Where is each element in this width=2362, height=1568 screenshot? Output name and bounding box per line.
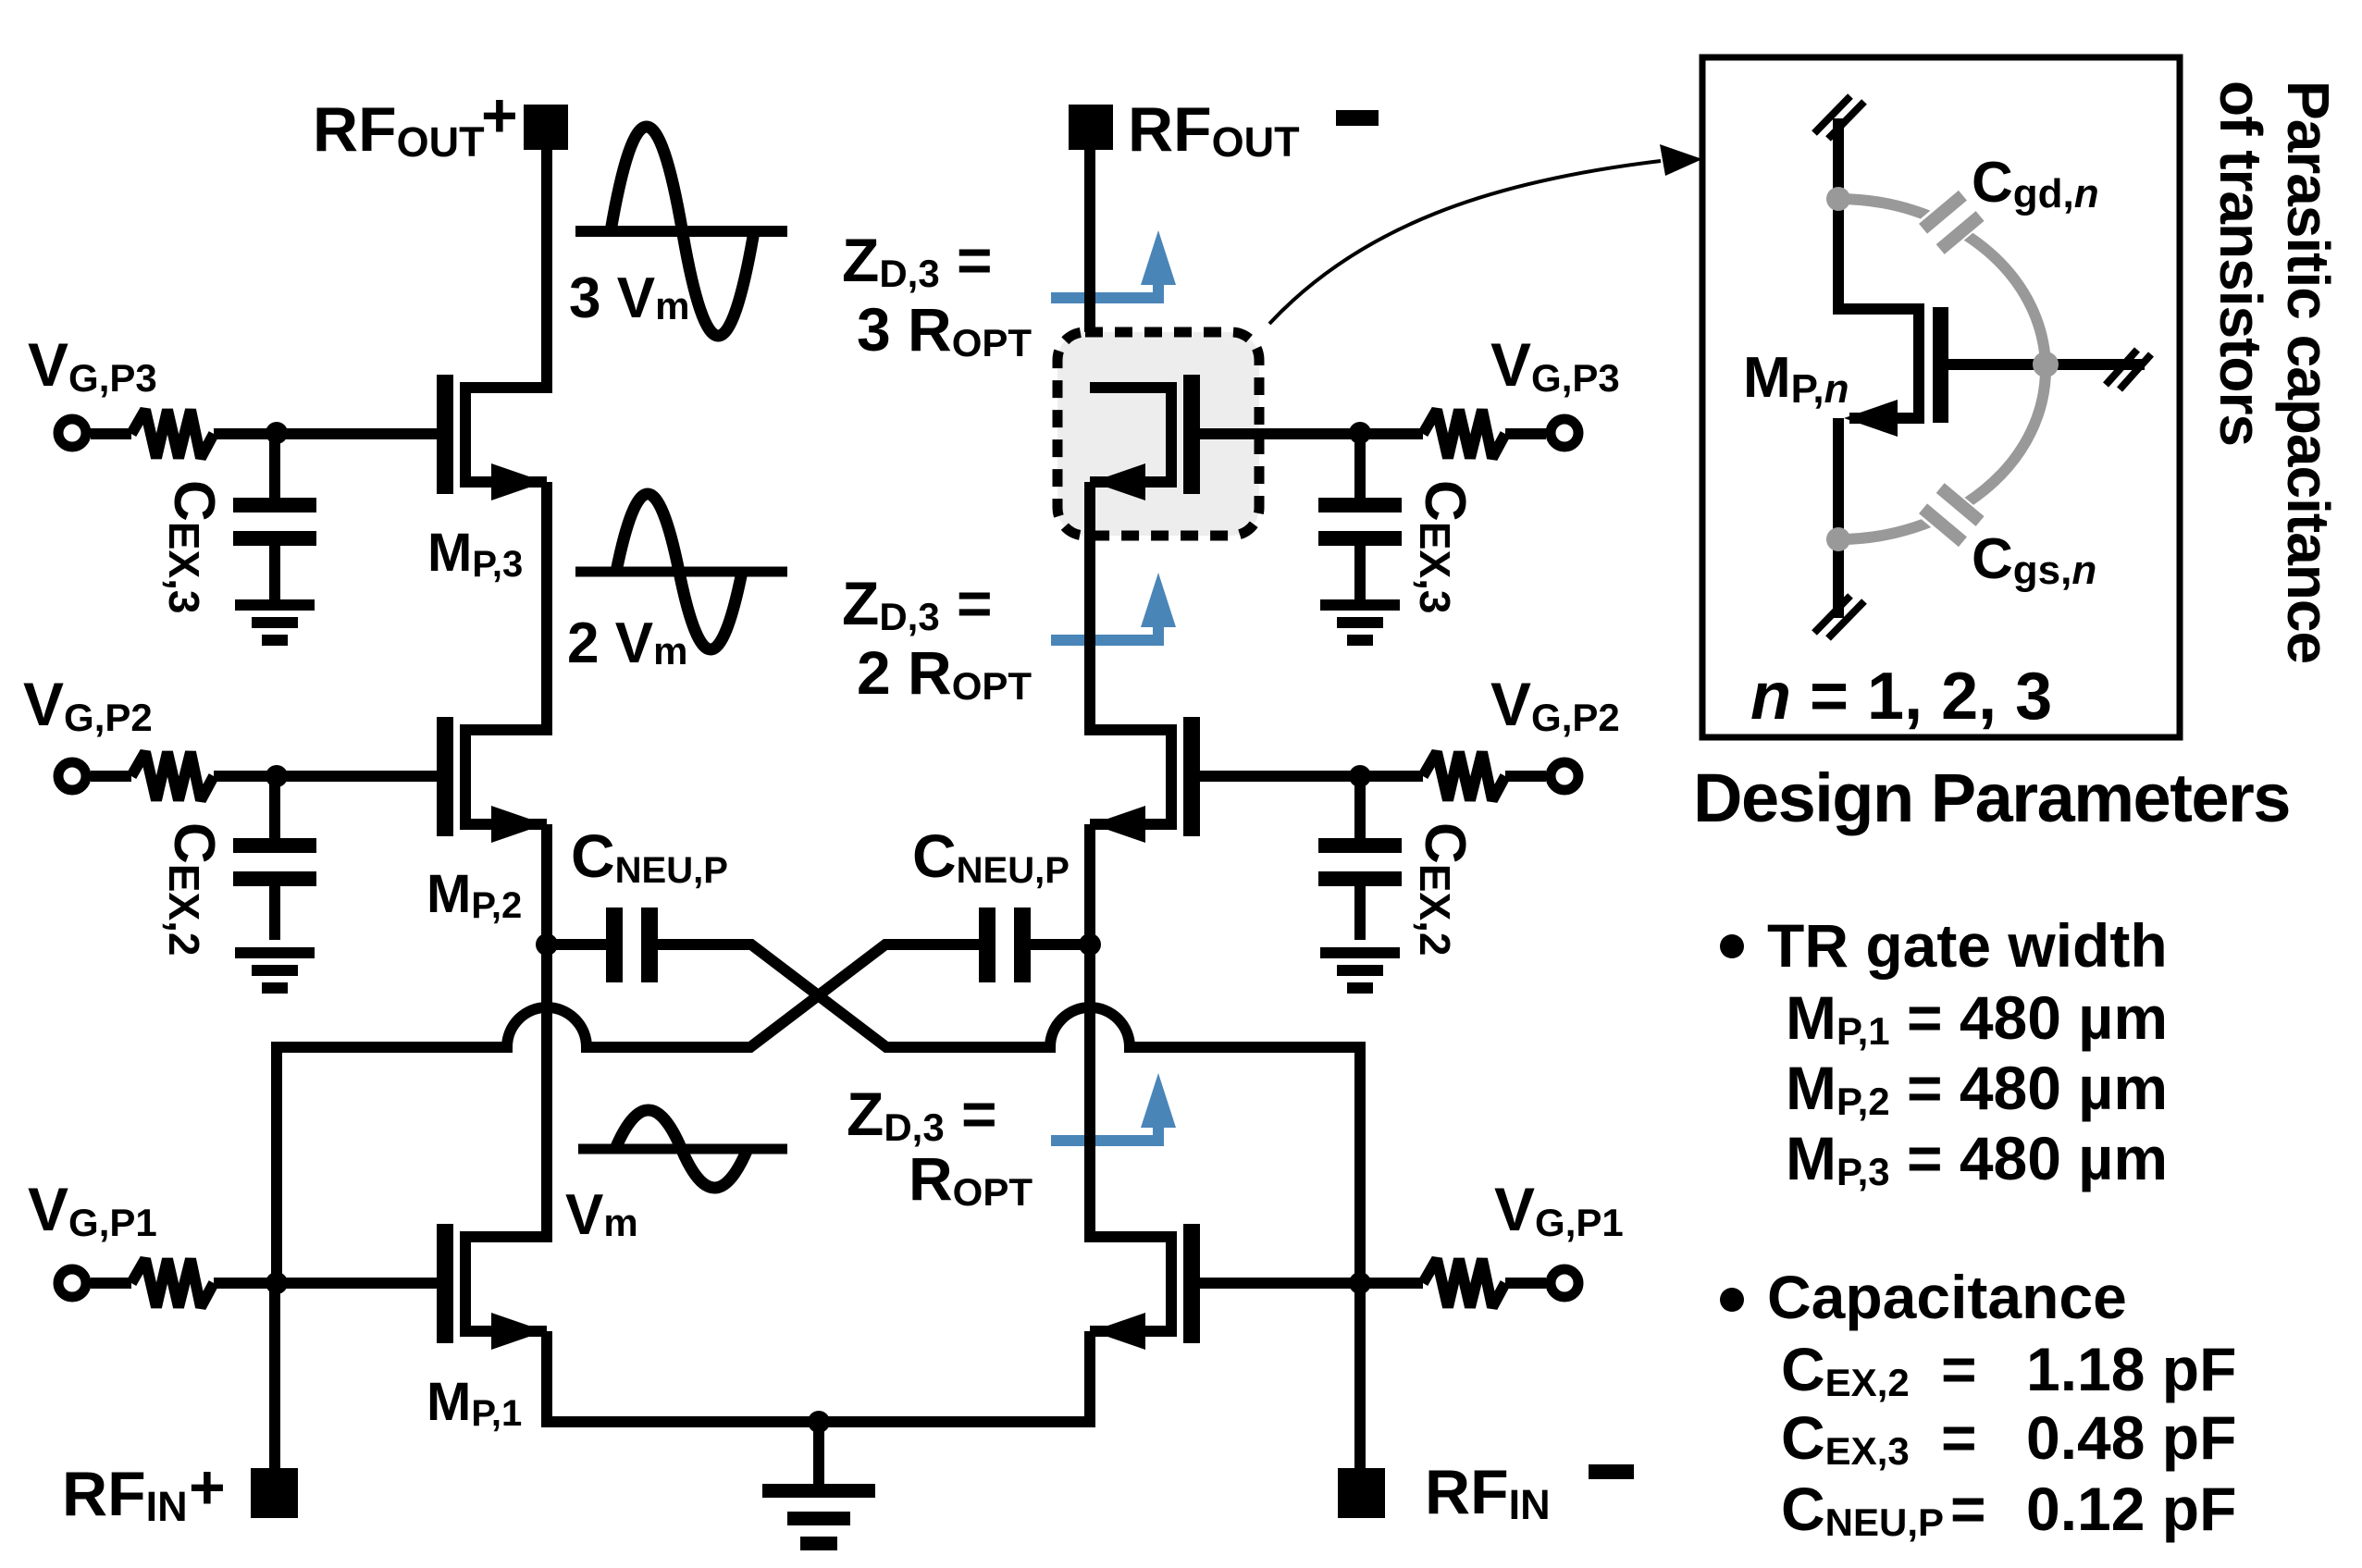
sine wave 3Vm	[575, 127, 787, 336]
terminal VG,P2 left	[58, 762, 86, 790]
svg-text:=: =	[1941, 1335, 1977, 1403]
RF_IN- pad	[1338, 1468, 1385, 1518]
label Parasitic capacitance	[2275, 80, 2342, 663]
bullet TR gate width	[1720, 934, 1744, 958]
ground CEX,3 right	[1320, 599, 1400, 646]
capacitor CEX,2 left	[233, 776, 316, 940]
ground CEX,3 left	[235, 599, 315, 646]
terminal VG,P1 right	[1551, 1269, 1578, 1297]
sine wave Vm	[578, 1110, 787, 1188]
wire gate MP,3 left	[91, 428, 437, 439]
blue arrow ZD3 top	[1051, 230, 1176, 298]
wire cross-couple right node to left gate	[277, 945, 979, 1283]
svg-text:VG,P3: VG,P3	[1490, 330, 1620, 400]
label VG,P2 left	[23, 670, 153, 739]
svg-text:1.18 pF: 1.18 pF	[2026, 1335, 2236, 1403]
label TR gate width	[1767, 911, 2168, 980]
capacitor CEX,2 right	[1318, 776, 1402, 940]
label RF_IN+	[62, 1452, 226, 1530]
pointer arrow to inset	[1269, 144, 1702, 324]
svg-text:VG,P2: VG,P2	[1490, 670, 1620, 739]
svg-text:CEX,3: CEX,3	[1411, 480, 1477, 614]
svg-text:Parasitic capacitance: Parasitic capacitance	[2275, 80, 2342, 663]
svg-text:=: =	[1950, 1475, 1986, 1543]
resistor VG,P1 right	[1423, 1259, 1505, 1307]
label CEX,3 left	[160, 480, 226, 614]
label VG,P3 left	[28, 330, 157, 400]
svg-text:n = 1, 2, 3: n = 1, 2, 3	[1750, 660, 2052, 734]
transistor MP,3 left	[437, 375, 547, 500]
label RF_OUT+	[313, 80, 518, 166]
label MP,3 = 480um	[1786, 1124, 2168, 1193]
svg-text:CNEU,P: CNEU,P	[571, 821, 728, 891]
node VG,P1 right	[1349, 1272, 1371, 1294]
capacitor Cgs,n	[1917, 482, 1985, 549]
svg-text:VG,P2: VG,P2	[23, 670, 153, 739]
svg-text:CEX,3: CEX,3	[160, 480, 226, 614]
label Vm	[565, 1183, 638, 1247]
terminal VG,P1 left	[58, 1269, 86, 1297]
label ZD,3 = (top)	[842, 226, 993, 295]
svg-text:2 ROPT: 2 ROPT	[857, 638, 1032, 708]
label MP,1 = 480um	[1786, 983, 2168, 1053]
capacitor Cgd,n	[1917, 189, 1985, 256]
label 3 Vm	[569, 266, 689, 330]
resistor VG,P3 right	[1423, 410, 1505, 458]
label CNEU,P value	[1781, 1475, 2236, 1544]
svg-text:CEX,2: CEX,2	[1411, 822, 1477, 957]
break symbol drain	[1814, 96, 1864, 139]
transistor MP,1 right	[1090, 1224, 1200, 1350]
resistor VG,P1 left	[131, 1259, 214, 1307]
inset gray node source	[1826, 527, 1850, 551]
svg-text:MP,3 = 480 µm: MP,3 = 480 µm	[1786, 1124, 2168, 1193]
svg-text:CNEU,P: CNEU,P	[1781, 1475, 1944, 1544]
svg-text:=: =	[1941, 1403, 1977, 1472]
transistor MP,2 left	[437, 717, 547, 843]
label CEX,2 right	[1411, 822, 1477, 957]
blue arrow ZD3 mid	[1051, 573, 1176, 640]
RF_OUT- pad	[1069, 105, 1113, 150]
label MP,3	[427, 523, 523, 585]
label VG,P2 right	[1490, 670, 1620, 739]
svg-text:CEX,3: CEX,3	[1781, 1403, 1910, 1473]
wire right MP,2 source to MP,1 drain	[1084, 824, 1095, 1242]
node ground rail	[808, 1411, 830, 1433]
wire right drain line RF_OUT- to MP,3	[1084, 150, 1095, 393]
wire left drain line RF_OUT+ to MP,3	[541, 150, 552, 393]
svg-text:RFIN: RFIN	[1425, 1457, 1551, 1528]
svg-text:RFOUT: RFOUT	[1128, 94, 1300, 166]
wire left MP,3 source to MP,2 drain	[541, 482, 552, 735]
svg-text:3 ROPT: 3 ROPT	[857, 295, 1032, 364]
svg-text:MP,1 = 480 µm: MP,1 = 480 µm	[1786, 983, 2168, 1053]
RF_OUT+ pad	[524, 105, 568, 150]
node VG,P3 right	[1349, 422, 1371, 444]
label MP,n inset	[1743, 346, 1849, 412]
svg-text:VG,P1: VG,P1	[1494, 1175, 1624, 1244]
ground main	[762, 1422, 875, 1550]
svg-text:2 Vm: 2 Vm	[567, 611, 687, 675]
capacitor CEX,3 left	[233, 434, 316, 599]
svg-text:TR gate width: TR gate width	[1767, 911, 2168, 980]
label CEX,2 left	[160, 822, 226, 957]
svg-text:3 Vm: 3 Vm	[569, 266, 689, 330]
svg-text:CNEU,P: CNEU,P	[912, 821, 1070, 891]
svg-text:of transistors: of transistors	[2207, 80, 2274, 446]
svg-text:RFOUT: RFOUT	[313, 94, 485, 166]
capacitor CEX,3 right	[1318, 434, 1402, 599]
node VG,P2 right	[1349, 765, 1371, 787]
wire gate MP,3 right	[1200, 428, 1546, 439]
node CNEU left	[536, 933, 558, 956]
svg-text:RFIN: RFIN	[62, 1459, 188, 1530]
label RF_IN- minus	[1589, 1464, 1634, 1479]
transistor MP,1 left	[437, 1224, 547, 1350]
wire bottom rail	[547, 1416, 1090, 1427]
wire gate MP,2 right	[1200, 771, 1546, 782]
label n = 1, 2, 3	[1750, 660, 2052, 734]
bullet Capacitance	[1720, 1288, 1744, 1312]
label Capacitance	[1767, 1263, 2127, 1331]
label ZD,3 = (bottom)	[847, 1080, 997, 1149]
node VG,P3 left	[266, 422, 288, 444]
inset gray node gate	[2033, 352, 2059, 377]
transistor MP,3 right	[1090, 375, 1200, 500]
svg-text:VG,P3: VG,P3	[28, 330, 157, 400]
inset gray node drain	[1826, 187, 1850, 211]
wire gate MP,n inset	[1948, 359, 2145, 370]
label 3 ROPT	[857, 295, 1032, 364]
inset box	[1702, 57, 2180, 737]
svg-text:Vm: Vm	[565, 1183, 638, 1247]
dashed highlight box MP,3 right	[1057, 332, 1259, 536]
svg-text:+: +	[481, 80, 518, 151]
break symbol source	[1814, 596, 1864, 638]
resistor VG,P2 right	[1423, 752, 1505, 800]
svg-text:CEX,2: CEX,2	[160, 822, 226, 957]
break symbol gate	[2106, 350, 2151, 389]
label VG,P1 left	[28, 1175, 157, 1244]
label of transistors	[2207, 80, 2274, 446]
svg-text:Capacitance: Capacitance	[1767, 1263, 2127, 1331]
wire VG,P1 right to RF_IN- pad	[1354, 1283, 1366, 1471]
RF_IN+ pad	[251, 1468, 298, 1518]
terminal VG,P3 left	[58, 419, 86, 447]
resistor VG,P2 left	[131, 752, 214, 800]
label 2 ROPT	[857, 638, 1032, 708]
label ROPT	[909, 1144, 1033, 1214]
wire left MP,2 source to MP,1 drain	[541, 824, 552, 1242]
label Cgd,n	[1972, 151, 2099, 216]
label ZD,3 = (mid)	[842, 569, 993, 638]
svg-text:MP,2 = 480 µm: MP,2 = 480 µm	[1786, 1054, 2168, 1123]
label VG,P3 right	[1490, 330, 1620, 400]
ground CEX,2 right	[1320, 947, 1400, 994]
label Cgs,n	[1972, 527, 2096, 593]
sine wave 2Vm	[575, 494, 787, 649]
svg-text:MP,2: MP,2	[427, 864, 522, 926]
svg-text:ZD,3 =: ZD,3 =	[847, 1080, 997, 1149]
wire gate MP,2 left	[91, 771, 437, 782]
node VG,P2 left	[266, 765, 288, 787]
svg-text:+: +	[189, 1452, 226, 1523]
svg-text:CEX,2: CEX,2	[1781, 1335, 1910, 1404]
terminal VG,P2 right	[1551, 762, 1578, 790]
svg-text:0.12 pF: 0.12 pF	[2026, 1475, 2236, 1543]
transistor MP,n inset	[1838, 118, 1948, 618]
label CEX,3 value	[1781, 1403, 2236, 1473]
label RF_IN-	[1425, 1457, 1551, 1528]
label VG,P1 right	[1494, 1175, 1624, 1244]
wire right MP,3 source to MP,2 drain	[1084, 482, 1095, 735]
wire right MP,1 source to ground rail	[1084, 1331, 1095, 1427]
wire VG,P1 left to RF_IN+ pad	[269, 1283, 280, 1471]
terminal VG,P3 right	[1551, 419, 1578, 447]
svg-text:Design Parameters: Design Parameters	[1693, 759, 2290, 836]
label 2 Vm	[567, 611, 687, 675]
wire cross-couple left node to right gate	[658, 945, 1360, 1283]
label CEX,2 value	[1781, 1335, 2236, 1404]
svg-text:MP,1: MP,1	[427, 1372, 522, 1434]
label MP,2 = 480um	[1786, 1054, 2168, 1123]
inset gray parasitic arc	[1838, 199, 2046, 539]
svg-text:ZD,3 =: ZD,3 =	[842, 226, 993, 295]
label MP,2	[427, 864, 522, 926]
label CNEU,P right	[912, 821, 1070, 891]
capacitor CNEU,P right	[979, 907, 1090, 982]
label MP,1	[427, 1372, 522, 1434]
node VG,P1 left	[266, 1272, 288, 1294]
label RF_OUT- minus	[1336, 110, 1379, 126]
svg-text:ZD,3 =: ZD,3 =	[842, 569, 993, 638]
svg-text:ROPT: ROPT	[909, 1144, 1033, 1214]
label CNEU,P left	[571, 821, 728, 891]
ground CEX,2 left	[235, 947, 315, 994]
svg-text:MP,3: MP,3	[427, 523, 523, 585]
svg-text:VG,P1: VG,P1	[28, 1175, 157, 1244]
wire left MP,1 source to ground rail	[541, 1331, 552, 1427]
label CEX,3 right	[1411, 480, 1477, 614]
heading Design Parameters	[1693, 759, 2290, 836]
blue arrow ZD3 bottom	[1051, 1073, 1176, 1141]
node CNEU right	[1079, 933, 1101, 956]
wire gate MP,1 right	[1200, 1278, 1546, 1289]
transistor MP,2 right	[1090, 717, 1200, 843]
label RF_OUT-	[1128, 94, 1300, 166]
capacitor CNEU,P left	[547, 907, 658, 982]
resistor VG,P3 left	[131, 410, 214, 458]
wire gate MP,1 left	[91, 1278, 437, 1289]
svg-text:0.48 pF: 0.48 pF	[2026, 1403, 2236, 1472]
